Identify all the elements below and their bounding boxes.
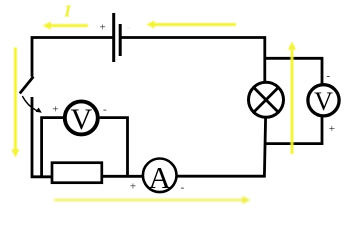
wire ammeter to resistor <box>102 175 142 178</box>
wire resistor to bottom-left corner up to switch contact <box>32 97 52 177</box>
current arrow right (upward) <box>288 42 296 155</box>
svg-text:I: I <box>63 2 72 21</box>
lamp L1 cross <box>254 87 279 112</box>
battery B1 positive plate <box>112 13 115 62</box>
lamp L1 circle <box>249 82 284 117</box>
wire top-right: battery to top-right corner down to lamp <box>122 38 265 83</box>
current arrow top-right <box>146 20 236 28</box>
switch S1 closing arrow <box>22 96 37 111</box>
svg-text:A: A <box>149 160 172 195</box>
svg-text:V: V <box>70 103 92 136</box>
battery B1 negative plate <box>119 24 122 56</box>
current arrow left (downward) <box>11 48 19 158</box>
svg-text:-: - <box>326 70 330 82</box>
wire V2 branch top <box>265 58 322 84</box>
ammeter A1 circle <box>143 159 177 193</box>
svg-text:-: - <box>181 182 185 194</box>
svg-text:V: V <box>314 87 333 116</box>
wire V1 right lead <box>100 118 128 176</box>
svg-text:+: + <box>329 123 335 135</box>
voltmeter V2 circle <box>308 85 339 116</box>
wire lamp bottom to bottom-right corner then left to ammeter <box>177 117 265 176</box>
voltmeter V1 circle <box>65 101 98 134</box>
wire V2 branch bottom <box>265 117 322 144</box>
current arrow top-left <box>43 22 88 30</box>
resistor R1 <box>52 163 102 183</box>
switch S1 blade <box>20 77 34 94</box>
wire V1 left lead <box>42 118 64 177</box>
svg-text:+: + <box>130 181 136 193</box>
current arrow bottom (rightward) <box>54 196 251 204</box>
svg-text:+: + <box>52 104 58 116</box>
svg-text:-: - <box>126 22 130 34</box>
svg-text:-: - <box>103 104 107 116</box>
svg-text:+: + <box>99 22 105 34</box>
wire top-left: left vertical upper + top wire to battery <box>32 38 113 77</box>
